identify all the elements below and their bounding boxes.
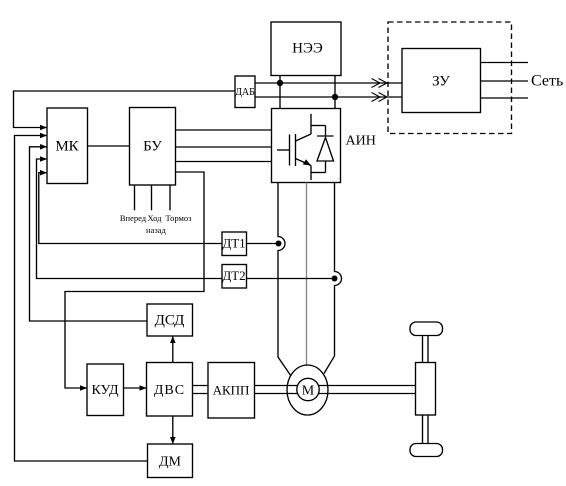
svg-text:назад: назад	[146, 225, 166, 235]
axle bottom (double line)	[423, 415, 429, 444]
block DM (ДМ torque sensor)	[148, 444, 193, 478]
block BU (БУ control unit)	[130, 108, 176, 186]
block DVS (ДВС engine)	[147, 363, 193, 417]
wire: DC bus line 1 (DAB to ZU)	[255, 82, 402, 84]
emitter vertical lead	[310, 166, 312, 181]
wire: DVS to DM (arrow down)	[172, 416, 174, 444]
block DT2 (ДТ2 current sensor)	[222, 265, 247, 289]
wire: BU to KUD	[65, 172, 204, 388]
shaft: AKPP to motor	[255, 386, 298, 394]
phase line C from AIN with sensor loop	[324, 183, 342, 374]
wire: DT2 to MK input 4	[37, 159, 223, 279]
gate bar	[289, 135, 291, 166]
wire: DT1 to phase A dot	[247, 243, 276, 245]
svg-text:ДТ1: ДТ1	[222, 236, 245, 251]
emitter diagonal	[296, 159, 312, 166]
wire: NEE left stub to AIN top	[279, 76, 281, 109]
dashed enclosure (charger unit)	[388, 22, 512, 134]
node: DT1 sensing dot	[276, 241, 282, 247]
wire: KUD to DVS	[124, 387, 147, 389]
wheel top	[410, 322, 443, 336]
block DAB (ДАБ battery sensor)	[235, 76, 255, 108]
wires: BU to AIN (3 control lines)	[176, 129, 272, 131]
svg-text:АИН: АИН	[346, 134, 376, 149]
collector diagonal	[296, 134, 312, 141]
node: junction dot bus1 / NEE	[277, 80, 283, 86]
wire: DAB to MK input 1	[14, 91, 236, 128]
phase line A from AIN with sensor loop	[278, 183, 291, 377]
emitter-diode branch	[311, 172, 326, 174]
emitter arrowhead	[303, 159, 311, 165]
body bar	[295, 134, 297, 166]
block NEE (НЭЭ energy storage)	[271, 22, 341, 76]
arrowhead into DVS	[140, 385, 147, 391]
svg-text:ДАБ: ДАБ	[235, 87, 255, 98]
svg-text:ЗУ: ЗУ	[432, 74, 450, 90]
svg-text:ДВС: ДВС	[154, 383, 185, 398]
axle top (double line)	[423, 336, 429, 363]
svg-text:Ход: Ход	[148, 213, 163, 223]
wire: DSD to MK input 3	[30, 147, 148, 321]
block AKPP (АКПП gearbox)	[208, 363, 255, 419]
svg-text:БУ: БУ	[143, 139, 162, 155]
wire: DM to MK input 2	[15, 136, 148, 462]
block DSD (ДСД speed sensor)	[147, 304, 193, 336]
arrowheads into MK	[40, 125, 47, 176]
wire: DVS to DSD (arrow up)	[172, 336, 174, 363]
motor M outer ellipse	[287, 365, 328, 415]
diode top vertical	[325, 126, 327, 137]
wires: ZU three outputs to mains	[481, 62, 529, 64]
diode bottom vertical	[325, 161, 327, 173]
BU bottom stubs (driver commands)	[134, 185, 136, 210]
chevron arrows on bus line 1	[372, 79, 388, 88]
wire: MK to BU	[88, 145, 130, 147]
phase line B (middle) from AIN to motor	[306, 183, 308, 367]
svg-text:АКПП: АКПП	[213, 383, 250, 398]
collector vertical lead	[310, 114, 312, 134]
diode cathode bar	[317, 135, 334, 137]
shaft: motor to differential	[318, 386, 415, 394]
block ZU (ЗУ charger)	[402, 49, 481, 113]
block AIN (АИН inverter)	[272, 109, 341, 183]
motor M inner circle	[297, 378, 319, 400]
diode triangle	[317, 138, 334, 162]
block DT1 (ДТ1 current sensor)	[222, 232, 247, 256]
wire: DT2 to phase C dot	[247, 278, 332, 280]
svg-text:ДСД: ДСД	[155, 313, 185, 329]
gate lead	[277, 149, 290, 151]
svg-text:Вперед: Вперед	[120, 213, 147, 223]
svg-text:М: М	[302, 384, 315, 399]
block MK (МК microcontroller)	[47, 108, 88, 184]
svg-text:МК: МК	[55, 139, 79, 155]
node: DT2 sensing dot	[332, 276, 338, 282]
arrowhead into KUD	[80, 385, 87, 391]
wire: NEE right stub to AIN top	[334, 76, 336, 109]
wire: DT1 to MK input 5	[39, 173, 222, 244]
collector-diode branch	[311, 125, 326, 127]
node: junction dot bus2 / NEE	[332, 94, 338, 100]
svg-text:ДТ2: ДТ2	[222, 268, 245, 283]
block KUD (КУД engine control)	[87, 364, 124, 416]
chevron arrows on bus line 2	[372, 93, 388, 102]
wire: DC bus line 2 (DAB to ZU)	[255, 96, 402, 98]
wheel bottom	[410, 444, 443, 457]
svg-text:Тормоз: Тормоз	[166, 213, 193, 223]
svg-text:КУД: КУД	[91, 383, 119, 398]
differential block	[416, 363, 436, 416]
svg-text:НЭЭ: НЭЭ	[292, 41, 323, 57]
svg-text:ДМ: ДМ	[159, 455, 182, 470]
svg-text:Сеть: Сеть	[531, 73, 563, 90]
shaft: DVS to AKPP (double line)	[193, 386, 209, 394]
